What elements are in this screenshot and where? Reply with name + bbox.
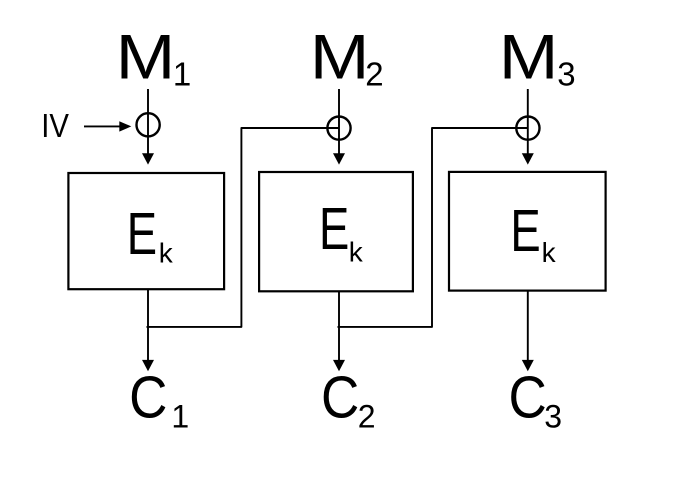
svg-text:1: 1: [171, 399, 189, 435]
svg-text:3: 3: [557, 56, 575, 93]
svg-text:k: k: [349, 236, 364, 267]
svg-text:E: E: [510, 197, 540, 264]
svg-text:M: M: [116, 23, 176, 93]
svg-text:E: E: [127, 200, 157, 267]
svg-text:3: 3: [544, 399, 562, 435]
svg-text:k: k: [159, 238, 174, 269]
svg-text:2: 2: [365, 56, 383, 93]
svg-text:1: 1: [173, 56, 191, 93]
svg-text:C: C: [509, 364, 547, 431]
svg-text:M: M: [310, 23, 370, 93]
svg-text:M: M: [499, 23, 559, 93]
svg-text:k: k: [542, 237, 557, 268]
svg-text:C: C: [129, 364, 167, 431]
svg-text:2: 2: [358, 399, 376, 435]
svg-text:C: C: [321, 364, 359, 431]
svg-text:IV: IV: [41, 107, 69, 144]
svg-text:E: E: [319, 195, 349, 262]
